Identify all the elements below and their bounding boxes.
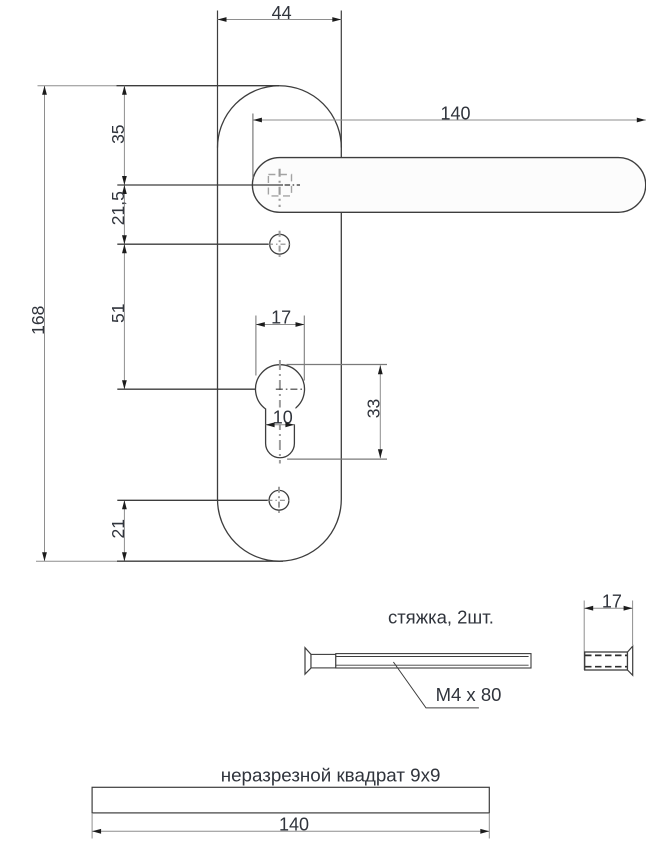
svg-text:17: 17: [602, 592, 622, 612]
square spindle bar: [92, 787, 489, 813]
sleeve nut dimension 17 extension line left: [583, 601, 585, 671]
left chain dimension line 21 (lower screw to plate bottom): [122, 500, 127, 561]
sleeve nut dimension 17 extension line right: [632, 601, 634, 646]
svg-text:стяжка, 2шт.: стяжка, 2шт.: [388, 607, 494, 628]
svg-text:неразрезной квадрат 9х9: неразрезной квадрат 9х9: [221, 765, 441, 786]
svg-text:35: 35: [108, 124, 128, 143]
dimension 17 (cylinder) label: [271, 307, 291, 327]
svg-text:44: 44: [272, 3, 292, 23]
dimension 17 (cylinder) extension line left: [255, 316, 257, 376]
dimension 33 dimension line with arrows: [378, 365, 383, 458]
handle lever (stadium): [252, 158, 645, 213]
svg-text:21,5: 21,5: [108, 191, 128, 225]
svg-text:140: 140: [440, 103, 470, 123]
label solid square bar (неразрезной квадрат 9х9): [221, 765, 441, 786]
bar dimension 140 label: [279, 814, 309, 834]
sleeve nut dimension 17 label: [602, 592, 622, 612]
euro cylinder hole outline: [256, 365, 305, 458]
left chain dimension line 51 (upper screw to cylinder axis): [122, 244, 127, 389]
dimension 10 label: [273, 407, 293, 427]
sleeve nut dimension 17 dimension line with arrows: [584, 606, 632, 611]
svg-text:51: 51: [108, 304, 128, 323]
bar dimension 140 dimension line with arrows: [92, 829, 489, 834]
sleeve nut countersunk head: [628, 646, 633, 675]
svg-text:168: 168: [28, 306, 48, 335]
svg-text:33: 33: [363, 399, 383, 418]
dimension 33 extension line top: [287, 364, 388, 366]
dimension 140 (handle) extension line: [252, 114, 254, 179]
leader line at cylinder axis: [117, 388, 272, 390]
svg-text:17: 17: [271, 307, 291, 327]
dimension 44 dimension line with arrows: [218, 17, 342, 22]
leader line at upper screw axis: [117, 243, 273, 245]
dimension 17 (cylinder) dimension line with arrows: [256, 322, 305, 327]
handle pivot centerline horizontal (dash-dot): [285, 184, 300, 186]
dimension 21 label (rotated): [108, 519, 128, 538]
label M4 x 80: [436, 684, 502, 705]
dimension 10 dimension line with arrows: [266, 422, 295, 427]
euro cylinder centerline vertical (dash-dot): [279, 360, 281, 464]
dimension 44 extension line right (plate right tangent extended): [340, 11, 342, 148]
leader line at handle axis: [117, 184, 283, 186]
upper screw hole centerline vertical: [279, 231, 281, 258]
lower screw hole centerline vertical: [278, 487, 280, 515]
lower screw hole: [269, 490, 289, 510]
bar dimension 140 extension line right: [488, 813, 490, 839]
tie bolt threaded rod outer: [336, 654, 531, 668]
dimension 35 label (rotated): [108, 124, 128, 143]
dimension 140 (handle) label: [440, 103, 470, 123]
leader line M4x80: [393, 662, 479, 708]
svg-text:M4 x 80: M4 x 80: [436, 684, 502, 705]
left chain dimension line 21,5 (handle axis to upper screw): [122, 185, 127, 244]
tie bolt plain shank: [311, 654, 336, 668]
tie bolt thread core line bottom: [336, 664, 529, 666]
tie bolt thread core line top: [336, 656, 529, 658]
lower screw hole centerline horizontal: [267, 499, 292, 501]
dimension 33 extension line bottom: [287, 458, 387, 460]
dimension 10 label background: [271, 408, 296, 425]
upper screw hole centerline horizontal: [268, 243, 293, 245]
bar dimension 140 extension line left: [91, 813, 93, 839]
svg-text:21: 21: [108, 519, 128, 538]
tie bolt head (countersunk): [305, 648, 311, 675]
dimension 51 label (rotated): [108, 304, 128, 323]
sleeve nut hidden thread line top (dashed): [585, 654, 628, 656]
sleeve nut hidden thread line bottom (dashed): [585, 666, 628, 668]
dimension 33 label (rotated): [363, 399, 383, 418]
left chain dimension line 35 (top of plate to handle axis): [122, 86, 127, 185]
top datum line at plate top: [38, 85, 280, 87]
dimension 17 (cylinder) extension line right: [303, 316, 305, 381]
leader line at lower screw axis: [117, 499, 272, 501]
label tie-rod (стяжка, 2шт.): [388, 607, 494, 628]
svg-text:140: 140: [279, 814, 309, 834]
dimension 168 dimension line with arrows: [42, 86, 47, 562]
spindle square 8x8 (dashed): [268, 175, 291, 196]
backplate outline: [218, 86, 342, 561]
dimension 44 label: [272, 3, 292, 23]
bottom datum line at plate bottom: [36, 560, 283, 562]
dimension 21,5 label (rotated): [108, 191, 128, 225]
euro cylinder centerline horizontal (dash-dot): [276, 388, 302, 390]
sleeve nut body: [585, 652, 628, 670]
upper screw hole: [270, 234, 290, 254]
handle pivot centerline vertical (dash-dot): [279, 169, 281, 207]
dimension 140 (handle) dimension line with arrows: [253, 118, 646, 123]
dimension 168 label (rotated): [28, 306, 48, 335]
dimension 44 extension line left (plate left tangent extended): [217, 11, 219, 148]
